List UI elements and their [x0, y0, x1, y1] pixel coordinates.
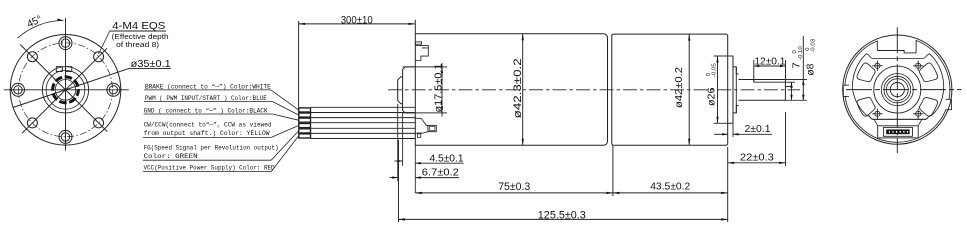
- assembly screw at (918,66): [916, 63, 921, 68]
- dim 75 line: [415, 192, 613, 194]
- connector recess chord: [867, 116, 932, 120]
- wire label CW/CCW underline: [143, 136, 271, 138]
- dim 12 arrow right: [780, 65, 786, 67]
- flange through-hole S inner: [61, 133, 69, 141]
- dim 4.5 line right: [415, 162, 463, 164]
- leader line for dia-35 callout (diametral): [13, 68, 130, 107]
- lead wire boundary line 6: [311, 132, 416, 134]
- flange through-hole N outer: [59, 37, 72, 50]
- rear boss disc2 line: [732, 56, 734, 123]
- leader GND to wire3: [272, 114, 298, 120]
- svg-text:4.5±0.1: 4.5±0.1: [430, 153, 464, 164]
- dim 2 left extension: [727, 129, 729, 145]
- dim text dia17.5: [433, 63, 444, 112]
- connector inner body: [883, 127, 912, 136]
- lead wire boundary line 1: [311, 106, 416, 108]
- svg-text:ø42±0.2: ø42±0.2: [674, 67, 685, 108]
- rim notch west: [843, 85, 849, 96]
- dim 125.5 arrow left: [399, 218, 406, 220]
- boss bottom extension line: [403, 112, 447, 114]
- lead wire boundary line 5: [311, 127, 416, 129]
- dim dia17.5 arrow up: [441, 67, 443, 74]
- M4 tapped hole at 45deg #1: [27, 52, 37, 62]
- dim text dia8 tol upper: [805, 47, 811, 50]
- leader from 4-M4 callout to NE hole: [99, 31, 110, 54]
- boss top extension line: [403, 66, 447, 68]
- dim 12 right extension: [785, 60, 787, 80]
- dim dia8 extension top: [785, 79, 807, 81]
- flange through-hole W inner: [14, 86, 22, 94]
- dim 75 arrow left: [415, 192, 422, 194]
- wire label VCC underline: [143, 171, 271, 173]
- dim 12 line: [754, 65, 786, 67]
- hub boss circle dia17.5: [42, 67, 88, 113]
- dim 22 arrow right: [779, 162, 786, 164]
- dim 300 line: [299, 23, 415, 25]
- dim dia42 arrow up: [688, 34, 690, 41]
- svg-text:-0.05: -0.05: [711, 63, 717, 77]
- dim dia8 extension bottom: [785, 99, 807, 101]
- top tab notch chord: [877, 51, 916, 53]
- dim 2 line right: [733, 133, 772, 135]
- dim 12 left extension: [753, 60, 755, 82]
- dim 7 arrow up: [790, 82, 792, 88]
- dim 300 arrow right: [408, 23, 415, 25]
- wire terminal 2: [299, 113, 311, 117]
- flange through-hole N inner: [61, 39, 69, 47]
- motor body outline: [612, 34, 728, 145]
- left view NE-SW 45 deg centerline through M4 holes: [22, 48, 107, 133]
- top tab notch left side: [876, 41, 878, 51]
- dim text dia42: [674, 67, 685, 108]
- dim dia26 arrow down: [716, 117, 718, 124]
- rear hub circle r7.1: [890, 83, 904, 97]
- dim text dia8: [806, 63, 817, 75]
- top terminal bracket small box: [415, 42, 421, 44]
- dim dia8 arrow up: [802, 80, 804, 86]
- wire label FG underline: [143, 159, 271, 161]
- gearbox body outline: [415, 34, 607, 146]
- dim dia26 arrow up: [716, 56, 718, 63]
- svg-text:75±0.3: 75±0.3: [498, 181, 530, 193]
- dim 43.5 arrow right: [721, 192, 728, 194]
- dim dia26 top extension: [714, 55, 733, 57]
- M4 tapped hole at 45deg #2: [94, 52, 104, 62]
- right view inner rim arc 2: [845, 96, 946, 142]
- top tab notch right side: [915, 40, 917, 53]
- front boss dia17.5 side profile: [403, 67, 416, 113]
- dim 6.7 line right: [415, 177, 459, 179]
- rear hub circle r23.5: [874, 66, 921, 113]
- ext line flange face down: [414, 145, 416, 193]
- svg-text:300±10: 300±10: [341, 14, 373, 26]
- top terminal bracket profile: [415, 46, 428, 61]
- connector pins: [889, 131, 909, 133]
- right view inner rim arc 1: [845, 41, 878, 85]
- shaft bore circle: [55, 80, 76, 101]
- leader PWM to wire2: [272, 102, 298, 116]
- dim 22 line: [728, 162, 786, 164]
- dim 4.5 arrowhead right: [415, 162, 421, 164]
- dim text 7 tol lower: [798, 46, 804, 60]
- left view outer circle (motor flange outline): [10, 35, 121, 146]
- svg-text:ø17.5±0.1: ø17.5±0.1: [433, 63, 444, 112]
- vent slot at 152deg: [857, 63, 875, 82]
- dim 4.5 arrowhead left: [397, 160, 403, 162]
- lead wire boundary line 4: [311, 122, 416, 124]
- vent slot at 28deg: [919, 63, 937, 82]
- svg-text:CW/CCW(connect to“—”, CCW as v: CW/CCW(connect to“—”, CCW as viewed: [144, 122, 272, 129]
- 45deg dimension arc: [18, 20, 64, 38]
- hub key tab right: [65, 67, 71, 72]
- right view inner rim arc 3: [916, 40, 950, 99]
- M4 tapped hole at 45deg #4: [94, 118, 104, 128]
- svg-text:Color: GREEN: Color: GREEN: [144, 153, 198, 160]
- svg-text:FG(Speed Signal per Revolution: FG(Speed Signal per Revolution output): [144, 144, 279, 151]
- left view vertical centerline: [65, 18, 67, 151]
- dim 125.5 line: [399, 218, 728, 220]
- dim text dia42.3: [512, 58, 524, 118]
- dim dia17.5 line: [441, 63, 443, 117]
- dim 43.5 arrow left: [613, 192, 620, 194]
- svg-text:ø8: ø8: [806, 63, 817, 75]
- svg-text:22±0.3: 22±0.3: [740, 152, 774, 163]
- svg-text:7: 7: [792, 62, 803, 68]
- right view vertical centerline: [896, 27, 898, 153]
- right view horizontal centerline: [846, 89, 962, 91]
- dim 22 right extension: [785, 112, 787, 166]
- hub key tab left: [56, 67, 62, 72]
- vent slot at 208deg: [857, 98, 875, 117]
- dim text dia26 tol lower: [711, 63, 717, 77]
- lead wire boundary line 3: [311, 117, 416, 119]
- dim 2 arrow left outside: [714, 133, 728, 135]
- dim 125.5 left extension: [398, 140, 400, 222]
- flange through-hole E inner: [109, 86, 117, 94]
- svg-text:43.5±0.2: 43.5±0.2: [650, 181, 690, 193]
- svg-text:VCC(Positive Power Supply) Col: VCC(Positive Power Supply) Color: RED: [144, 164, 275, 171]
- side view centerline: [388, 89, 800, 91]
- assembly screw at (918,114): [916, 111, 921, 116]
- dim dia42 arrow down: [688, 139, 690, 146]
- left view horizontal centerline: [4, 89, 129, 91]
- rear hub circle r16.0: [881, 74, 913, 106]
- dim text dia26: [707, 87, 718, 106]
- dim dia42.3 arrow up: [522, 34, 524, 41]
- dim dia26 line: [717, 56, 719, 123]
- wire exit grommet end box outer: [428, 125, 436, 131]
- wire terminal 3: [299, 118, 311, 122]
- hub circle r19.4: [46, 70, 85, 109]
- wire terminal 1: [299, 108, 311, 112]
- dim dia8 arrow down: [802, 95, 804, 101]
- rear shaft flat step: [753, 80, 755, 83]
- dim 2 boss extension: [732, 123, 734, 137]
- dim dia26 bottom extension: [714, 122, 728, 124]
- dim dia8 line: [802, 36, 804, 100]
- dim 4.5 arrow left outside: [395, 160, 403, 162]
- hub segmented clamp ring: [53, 77, 79, 103]
- connector side wall right: [918, 119, 922, 126]
- rear shaft outline: [739, 80, 786, 101]
- assembly screw at (877,66): [875, 63, 880, 68]
- dim dia42.3 line: [522, 34, 524, 146]
- wire label GND underline: [144, 113, 273, 115]
- 45deg arc arrowhead: [57, 19, 64, 21]
- rear shaft flat edge: [754, 81, 786, 83]
- flange through-hole S outer: [59, 130, 72, 143]
- left view NW-SE 45 deg centerline through M4 holes: [20, 45, 107, 132]
- rim notch east: [946, 99, 952, 109]
- ext line boss face down: [402, 113, 404, 166]
- wire terminal 5: [299, 129, 311, 133]
- dim 7 extension flat: [785, 81, 795, 83]
- dim 75 arrow right: [606, 192, 613, 194]
- leader BRAKE to wire1: [271, 90, 299, 110]
- dim dia42 line: [688, 34, 690, 145]
- dim 300 left extension: [298, 21, 300, 107]
- M4 tapped hole at 45deg #3: [27, 118, 37, 128]
- dim 6.7 arrowhead right: [415, 176, 421, 178]
- svg-text:2±0.1: 2±0.1: [745, 124, 771, 135]
- dim 43.5 line: [613, 192, 728, 194]
- wire exit grommet foot: [417, 134, 420, 138]
- dim 22 arrow left: [728, 162, 735, 164]
- ext line pilot face down: [397, 104, 399, 181]
- dim text dia8 tol lower: [810, 39, 816, 53]
- dim dia42.3 arrow down: [522, 139, 524, 146]
- dim text 7 tol upper: [792, 50, 798, 53]
- assembly screw at (877,114): [875, 111, 880, 116]
- dim 12 arrow left: [754, 65, 760, 67]
- rear hub circle r10.9: [886, 79, 908, 101]
- wire terminal 4: [299, 124, 311, 128]
- rear boss disc3 line: [735, 67, 737, 113]
- underline of 4-M4 EQS: [110, 30, 166, 32]
- wire terminal 6: [299, 134, 311, 138]
- dim 2 arrowhead right: [733, 133, 739, 135]
- leader CW/CCW to wire4: [271, 126, 298, 138]
- dim 7 arrow down: [790, 95, 792, 101]
- dim 75 right extension (motor left face down): [612, 145, 614, 196]
- dim 6.7 arrowhead left: [392, 176, 398, 178]
- svg-text:125.5±0.3: 125.5±0.3: [538, 210, 586, 222]
- end cap vent plate contour: [852, 54, 943, 120]
- dim 7 stub: [785, 86, 791, 88]
- connector outer body: [878, 126, 919, 138]
- wire exit grommet end box inner: [429, 127, 435, 131]
- leader FG to wire5: [271, 131, 298, 160]
- leader VCC to wire6: [271, 136, 298, 172]
- connector side wall left: [874, 119, 878, 126]
- svg-text:ø42.3±0.2: ø42.3±0.2: [512, 58, 524, 118]
- dim 6.7 arrow left outside: [390, 177, 398, 179]
- svg-text:PWM ( PWM INPUT/START ) Colo: PWM ( PWM INPUT/START ) Color:BLUE: [145, 95, 267, 102]
- ext line motor rear face down: [727, 147, 729, 222]
- dim dia17.5 arrow down: [441, 106, 443, 113]
- connector pin row band: [887, 130, 910, 134]
- wire label PWM underline: [144, 101, 272, 103]
- dim 125.5 arrow right: [721, 218, 728, 220]
- right view outer rim circle: [843, 35, 952, 144]
- svg-text:6.7±0.2: 6.7±0.2: [422, 168, 459, 179]
- dim 7 line: [791, 82, 793, 100]
- svg-text:from output shaft.) Color: YE: from output shaft.) Color: YELLOW: [144, 130, 270, 137]
- svg-text:of thread 8): of thread 8): [116, 40, 160, 49]
- dim 300 arrow left: [299, 23, 306, 25]
- svg-text:12±0.1: 12±0.1: [754, 56, 785, 67]
- rear boss disc dia26: [728, 56, 739, 123]
- rear hub circle r13.3: [884, 76, 911, 103]
- svg-text:GND ( connect to “—” ) Color: GND ( connect to “—” ) Color:BLACK: [144, 108, 268, 115]
- flange through-hole E outer: [107, 83, 120, 96]
- wire label BRAKE underline: [144, 89, 271, 91]
- front pilot step profile: [398, 77, 403, 104]
- dim 2 arrowhead left: [722, 133, 728, 135]
- lead wire boundary line 2: [311, 112, 416, 114]
- wire exit grommet profile: [415, 118, 428, 133]
- dim 300 right extension (flange face top): [414, 20, 416, 34]
- vent slot at 332deg: [919, 98, 937, 117]
- svg-text:ø26: ø26: [707, 87, 718, 106]
- svg-text:-0.03: -0.03: [810, 39, 816, 53]
- dim text 7: [792, 62, 803, 68]
- left view bolt circle dash-dot r47: [19, 43, 113, 137]
- flange through-hole W outer: [12, 83, 25, 96]
- underline of dia35: [130, 68, 172, 70]
- lead wire boundary line 7: [311, 138, 416, 140]
